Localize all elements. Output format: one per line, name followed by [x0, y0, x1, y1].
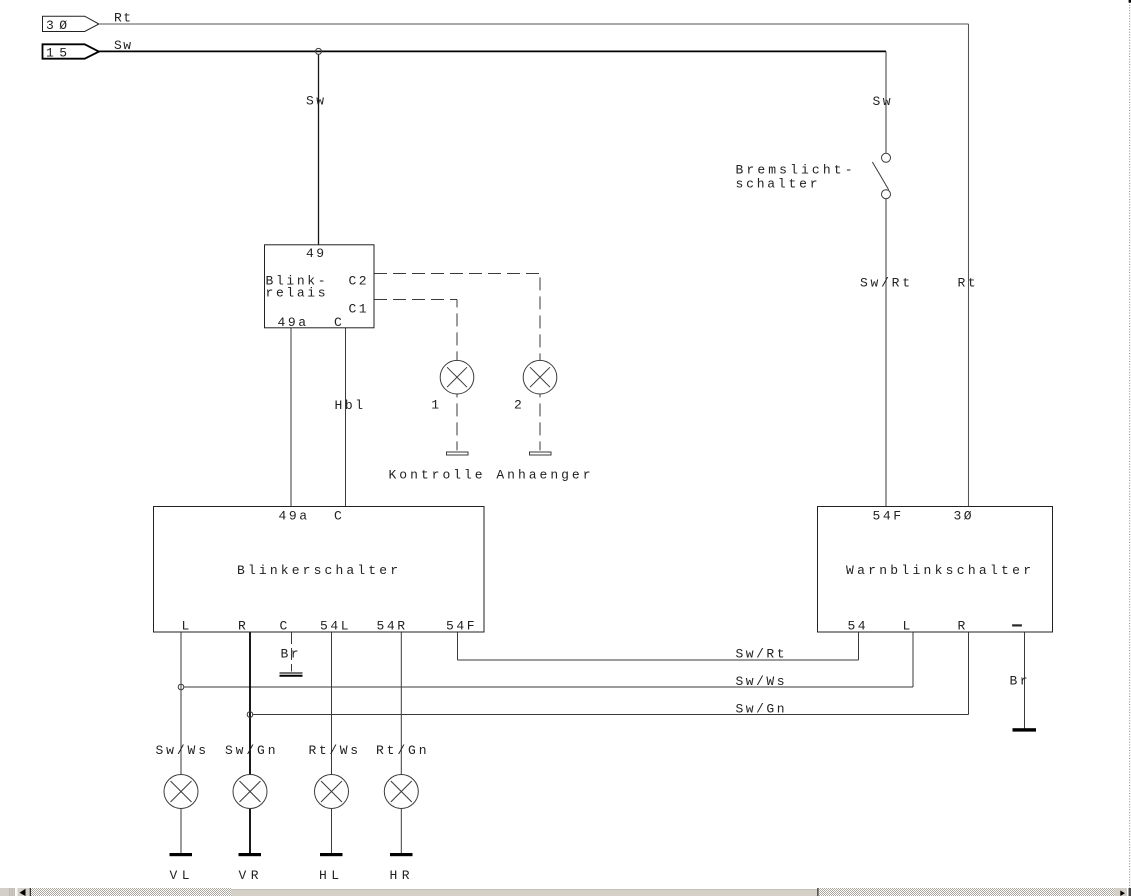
svg-text:54F: 54F — [873, 509, 905, 524]
svg-text:Sw: Sw — [114, 38, 134, 53]
svg-text:Kontrolle Anhaenger: Kontrolle Anhaenger — [389, 468, 594, 483]
svg-text:Rt/Ws: Rt/Ws — [309, 743, 362, 758]
svg-text:Sw/Gn: Sw/Gn — [225, 743, 279, 758]
svg-text:Sw/Rt: Sw/Rt — [736, 647, 788, 662]
svg-text:54: 54 — [848, 619, 869, 634]
svg-text:Rt/Gn: Rt/Gn — [376, 743, 430, 758]
svg-text:Sw/Ws: Sw/Ws — [736, 674, 788, 689]
svg-text:L: L — [903, 619, 914, 634]
svg-text:C2: C2 — [349, 274, 370, 289]
svg-text:54R: 54R — [377, 619, 409, 634]
svg-text:C: C — [280, 619, 291, 634]
svg-text:Br: Br — [1010, 674, 1031, 689]
svg-text:C: C — [334, 315, 345, 330]
svg-text:Bremslicht-: Bremslicht- — [736, 163, 856, 178]
svg-text:49a: 49a — [278, 315, 310, 330]
svg-text:schalter: schalter — [736, 177, 821, 192]
svg-text:Warnblinkschalter: Warnblinkschalter — [846, 563, 1034, 578]
svg-text:L: L — [182, 619, 193, 634]
svg-text:Sw/Ws: Sw/Ws — [156, 743, 210, 758]
svg-text:Sw: Sw — [306, 94, 327, 109]
svg-text:relais: relais — [266, 286, 329, 301]
svg-text:Sw/Gn: Sw/Gn — [736, 702, 788, 717]
svg-text:1: 1 — [431, 398, 442, 413]
svg-text:C1: C1 — [349, 302, 370, 317]
svg-text:VR: VR — [239, 868, 262, 883]
svg-text:3Ø: 3Ø — [954, 509, 975, 524]
svg-text:Rt: Rt — [958, 276, 979, 291]
svg-text:Sw/Rt: Sw/Rt — [860, 276, 913, 291]
svg-text:HL: HL — [319, 868, 342, 883]
svg-text:HR: HR — [390, 868, 413, 883]
svg-text:Sw: Sw — [873, 94, 894, 109]
svg-text:Rt: Rt — [114, 11, 134, 26]
svg-text:R: R — [958, 619, 969, 634]
svg-text:54F: 54F — [446, 619, 478, 634]
svg-text:49a: 49a — [279, 509, 311, 524]
svg-text:Hbl: Hbl — [335, 398, 367, 413]
svg-text:C: C — [334, 509, 345, 524]
svg-text:2: 2 — [514, 398, 525, 413]
svg-text:R: R — [238, 619, 249, 634]
svg-text:Blinkerschalter: Blinkerschalter — [237, 563, 401, 578]
svg-text:49: 49 — [306, 246, 327, 261]
svg-text:Br: Br — [281, 646, 302, 661]
svg-text:VL: VL — [170, 868, 193, 883]
svg-text:54L: 54L — [320, 619, 352, 634]
